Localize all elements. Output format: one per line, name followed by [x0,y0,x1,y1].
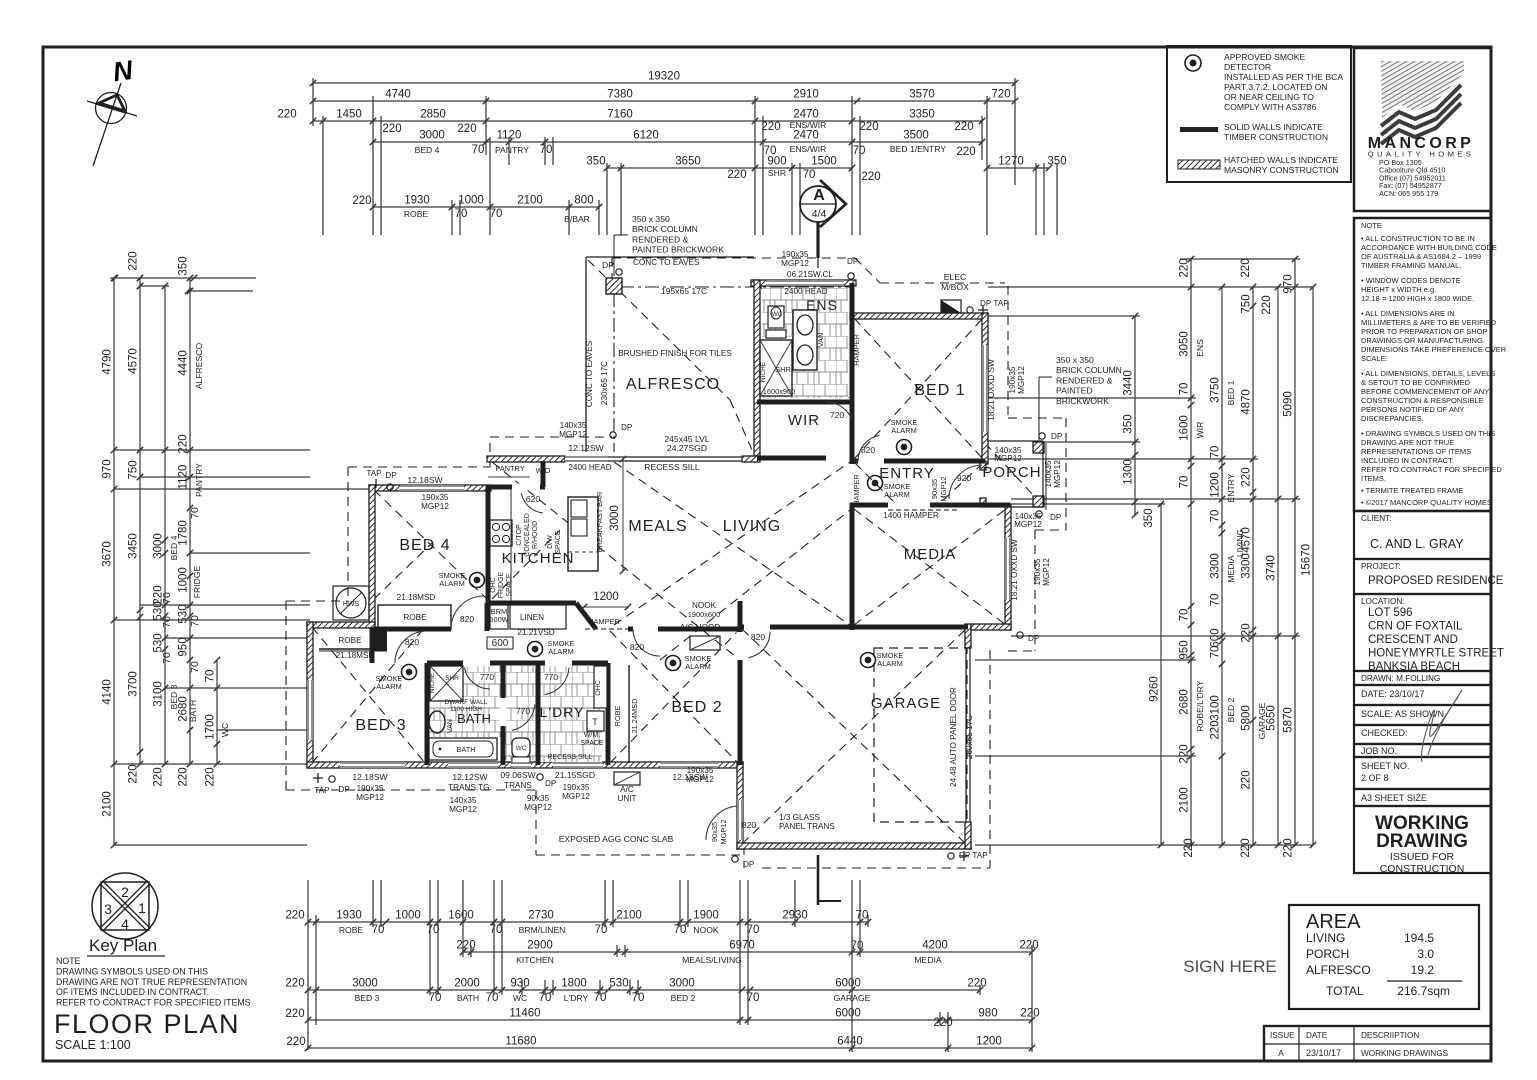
checked box [1354,725,1491,744]
svg-text:6970: 6970 [729,940,755,952]
svg-text:ISSUE: ISSUE [1270,1031,1295,1040]
svg-text:90x35: 90x35 [527,794,550,803]
svg-text:BED 1: BED 1 [914,382,965,399]
bed2 west wall [738,601,743,765]
left dim col 4570/750/3450/3700 [139,278,141,764]
svg-text:6000: 6000 [835,1008,861,1020]
right dim col 3440/350/1300 [1134,316,1136,515]
svg-text:L'DRY: L'DRY [564,993,589,1003]
svg-text:MGP12: MGP12 [524,803,552,812]
svg-text:70: 70 [540,144,553,156]
svg-text:1300: 1300 [1123,459,1135,485]
svg-text:530: 530 [153,633,165,652]
right dim col 970/5090/5870 [1294,259,1296,845]
svg-text:19.2: 19.2 [1411,963,1435,977]
svg-text:18.21 OXXD SW: 18.21 OXXD SW [987,359,996,421]
svg-text:220: 220 [1179,258,1191,277]
svg-text:2 OF 8: 2 OF 8 [1361,773,1389,783]
window 12.18SW bed2 [660,762,718,768]
svg-text:NOOK: NOOK [693,925,719,935]
key plan symbol [92,873,158,939]
svg-text:190x35: 190x35 [687,766,714,775]
svg-text:ALFRESCO: ALFRESCO [1306,963,1371,977]
svg-text:140x35: 140x35 [450,796,477,805]
eaves dashed outline [348,466,490,468]
bed3 north jog wall [307,622,375,628]
svg-text:ELEC: ELEC [944,272,966,282]
svg-text:MGP12: MGP12 [719,819,728,844]
svg-text:ENS/WIR: ENS/WIR [790,120,827,130]
bottom dim row kitchen/meals-living/media [463,951,1032,953]
svg-text:PORCH: PORCH [1306,947,1349,961]
svg-text:DP TAP: DP TAP [959,851,988,860]
svg-text:2470: 2470 [793,130,819,142]
svg-text:SHEET NO.: SHEET NO. [1361,761,1409,771]
svg-text:NICHE: NICHE [429,672,436,693]
svg-text:194.5: 194.5 [1404,931,1434,945]
svg-text:MILLIMETERS & ARE TO BE V: MILLIMETERS & ARE TO BE VERIFIED [1361,318,1497,327]
svg-text:900: 900 [767,156,786,168]
smoke alarm entry [868,476,883,491]
garage east open side [965,627,967,844]
window 12.12SW bath [448,762,498,768]
svg-text:1000: 1000 [458,195,484,207]
svg-text:PORCH: PORCH [982,464,1041,481]
svg-text:220: 220 [1240,258,1252,277]
svg-text:1270: 1270 [998,156,1024,168]
svg-text:ALFRESCO: ALFRESCO [626,376,720,393]
svg-text:MGP12: MGP12 [1014,520,1042,529]
svg-text:70: 70 [1179,476,1191,489]
svg-text:1600: 1600 [448,910,474,922]
svg-text:220: 220 [128,764,140,783]
svg-text:190x35: 190x35 [1033,558,1042,585]
svg-text:190x35: 190x35 [782,250,809,259]
svg-text:DRAWING: DRAWING [1376,831,1468,852]
dim 19320 overall width [313,82,1015,84]
svg-text:7160: 7160 [607,109,633,121]
bath fixtures [430,666,463,701]
window media east [1005,537,1011,600]
svg-text:KITCHEN: KITCHEN [516,955,554,965]
svg-text:11460: 11460 [509,1008,540,1020]
svg-text:ENTRY: ENTRY [879,465,935,482]
svg-text:350: 350 [586,156,605,168]
svg-text:A: A [813,187,825,204]
svg-text:3: 3 [104,901,112,917]
alfresco brick column [606,278,622,294]
svg-text:ALFRESCO: ALFRESCO [194,343,204,390]
svg-text:BED 4: BED 4 [415,145,440,155]
svg-text:TRANS: TRANS [504,781,532,790]
svg-text:PAINTED: PAINTED [1056,386,1093,396]
svg-text:11680: 11680 [505,1036,536,1048]
svg-text:5650: 5650 [1266,705,1278,731]
svg-text:DRAWINGS OR MANUFACTURING.: DRAWINGS OR MANUFACTURING. [1361,336,1485,345]
svg-text:220: 220 [285,1008,304,1020]
svg-text:DP: DP [1050,513,1062,522]
svg-text:HAMPER: HAMPER [588,617,620,626]
svg-text:5870: 5870 [1283,707,1295,733]
right dim col 15670 [1312,287,1314,845]
svg-text:MGP12: MGP12 [421,502,449,511]
svg-text:DRAWN: M.FOLLING: DRAWN: M.FOLLING [1361,674,1440,683]
svg-text:3500: 3500 [903,130,929,142]
svg-text:• TERMITE TREATED FRAME: • TERMITE TREATED FRAME [1361,486,1463,495]
svg-text:C/TOP: C/TOP [516,524,523,546]
svg-text:SHR: SHR [768,168,786,178]
svg-text:WC: WC [772,311,783,318]
svg-text:220: 220 [727,169,746,181]
wc fixture [512,738,530,757]
window 06.21SW.CL ens [766,280,844,286]
porch columns [1033,442,1044,453]
svg-text:A/C: A/C [620,785,634,794]
svg-text:CLIENT:: CLIENT: [1361,514,1391,523]
svg-text:WC: WC [513,993,527,1003]
svg-text:MGP12: MGP12 [939,476,948,501]
svg-text:BED 1: BED 1 [1226,380,1236,405]
svg-text:DATE: DATE [1306,1031,1328,1040]
svg-text:1780: 1780 [178,520,190,546]
svg-text:ENS: ENS [1195,339,1205,357]
svg-text:T: T [592,717,598,727]
svg-text:LOCATION:: LOCATION: [1361,597,1405,606]
svg-text:350: 350 [178,256,190,275]
svg-text:PAINTED BRICKWORK: PAINTED BRICKWORK [632,245,724,255]
svg-text:COMPLY WITH AS3786: COMPLY WITH AS3786 [1224,102,1317,112]
svg-text:220: 220 [128,251,140,270]
svg-text:BED 2: BED 2 [671,993,696,1003]
door arc garage glass [706,806,737,840]
svg-text:ROBE: ROBE [403,613,427,622]
svg-text:1600: 1600 [1179,415,1191,441]
door arc wir [826,402,852,420]
ens vanity [793,310,817,370]
svg-text:720: 720 [991,89,1010,101]
svg-text:DRAWING SYMBOLS USED ON TH: DRAWING SYMBOLS USED ON THIS [56,966,208,976]
svg-text:70: 70 [1210,446,1222,459]
svg-text:4790: 4790 [102,349,114,375]
svg-text:70: 70 [1179,609,1191,622]
svg-text:TOTAL: TOTAL [1326,984,1364,998]
svg-text:CONSTRUCTION & RESPONSIBLE: CONSTRUCTION & RESPONSIBLE [1361,396,1484,405]
wc/ldry wall [536,663,541,765]
right dim col 3750/1200/3300/3100 [1221,287,1223,845]
door arc hall/bed3 [395,631,425,663]
door arc bath [464,668,490,690]
hall south wall [427,661,608,666]
svg-text:220: 220 [178,767,190,786]
ens west wall [754,280,760,461]
svg-text:A: A [1278,1049,1284,1058]
svg-text:SHR: SHR [445,675,459,682]
svg-text:TIMBER FRAMING MANUAL.: TIMBER FRAMING MANUAL. [1361,261,1461,270]
svg-text:980: 980 [978,1008,997,1020]
svg-text:ROBE: ROBE [339,925,364,935]
svg-text:3100: 3100 [153,681,165,707]
dim row 4740/7380/2910/3570/720 [313,100,1015,102]
svg-text:NOOK: NOOK [692,601,717,610]
ens shower [760,340,792,396]
svg-text:ALARM: ALARM [548,647,573,656]
svg-text:B/BAR: B/BAR [564,214,590,224]
meals north wall [487,456,565,462]
media south wall [971,624,1011,630]
svg-text:770: 770 [480,672,495,682]
svg-text:350: 350 [1123,414,1135,433]
window 18.21 bed1 east [982,345,988,432]
svg-text:6000: 6000 [835,978,861,990]
svg-text:OF AUSTRALIA & AS1684.2 –: OF AUSTRALIA & AS1684.2 – 1999 [1361,252,1481,261]
hws unit [333,586,369,620]
svg-text:220: 220 [153,767,165,786]
svg-text:1700: 1700 [205,714,217,740]
left dim col 3000/3100 [164,286,166,764]
linen/brm cabinets [490,605,508,629]
entry south wall [850,503,1010,508]
svg-text:3100: 3100 [1210,695,1222,721]
door arc wc [512,705,535,731]
svg-text:UNIT: UNIT [617,794,636,803]
tap dp bottom left [313,777,323,779]
svg-text:DP: DP [621,423,633,432]
svg-text:5090: 5090 [1283,391,1295,417]
legend box: smoke detector / wall types [1167,46,1351,182]
svg-text:3450: 3450 [128,533,140,559]
window 21.15SGD ldry [553,762,603,768]
svg-text:1200: 1200 [1210,472,1222,498]
svg-text:HATCHED WALLS INDICATE: HATCHED WALLS INDICATE [1224,155,1338,165]
svg-text:190x35: 190x35 [357,784,384,793]
svg-text:EXPOSED AGG CONC SLAB: EXPOSED AGG CONC SLAB [559,834,674,844]
svg-text:220: 220 [967,978,986,990]
svg-text:HAMPER: HAMPER [852,474,861,506]
svg-text:3570: 3570 [909,89,935,101]
svg-text:18.21 OXXD SW: 18.21 OXXD SW [1010,539,1019,601]
svg-text:820: 820 [861,445,876,455]
svg-text:TAP: TAP [314,786,330,795]
svg-text:MEALS: MEALS [628,518,687,535]
svg-text:A/C HOOD: A/C HOOD [680,623,721,632]
svg-text:12.18SW: 12.18SW [352,772,388,782]
svg-text:PROJECT:: PROJECT: [1361,562,1401,571]
svg-text:PANTRY: PANTRY [495,145,529,155]
south wall bedrooms wing [307,762,743,768]
svg-text:DRAWING ARE NOT TRUE: DRAWING ARE NOT TRUE [1361,438,1454,447]
svg-text:DATE: 23/10/17: DATE: 23/10/17 [1361,689,1424,699]
ldry/robe wall [606,663,611,765]
svg-text:260x65 17C: 260x65 17C [965,715,974,759]
svg-text:12.12SW: 12.12SW [568,443,604,453]
svg-text:DETECTOR: DETECTOR [1224,62,1271,72]
svg-text:09.06SW: 09.06SW [500,770,536,780]
svg-text:DRAWING ARE NOT TRUE REPRE: DRAWING ARE NOT TRUE REPRESENTATION [56,977,247,987]
svg-text:3000: 3000 [419,130,445,142]
svg-text:DP: DP [338,785,350,794]
svg-text:MGP12: MGP12 [781,259,809,268]
svg-text:70: 70 [189,615,201,627]
svg-text:800: 800 [574,195,593,207]
svg-text:DP: DP [1028,634,1040,643]
svg-text:BEFORE COMMENCEMENT OF ANY: BEFORE COMMENCEMENT OF ANY [1361,387,1489,396]
svg-text:220: 220 [285,910,304,922]
svg-text:820: 820 [751,632,766,642]
svg-text:PANTRY: PANTRY [194,463,204,497]
svg-text:2100: 2100 [616,910,642,922]
svg-text:BRM/LINEN: BRM/LINEN [519,925,566,935]
svg-text:350 x 350: 350 x 350 [1056,355,1094,365]
svg-text:3740: 3740 [1266,555,1278,581]
dim row 1450/2850/7160/2470/3350 [313,120,982,122]
bed1 north wall [850,313,988,319]
bed4 north wall [369,485,491,491]
svg-text:BED 2: BED 2 [1226,697,1236,722]
svg-text:• DRAWING SYMBOLS USED ON: • DRAWING SYMBOLS USED ON THIS [1361,429,1495,438]
window 12.12SW kitchen [565,456,608,462]
svg-text:2730: 2730 [528,910,554,922]
ac unit [614,772,640,785]
svg-text:FRIDGE: FRIDGE [192,566,202,599]
svg-text:OHC: OHC [490,577,497,593]
svg-text:LOT 596: LOT 596 [1368,607,1413,619]
svg-text:C. AND L. GRAY: C. AND L. GRAY [1370,537,1464,551]
svg-text:SPACE: SPACE [506,573,513,597]
glass panel door garage [737,800,743,840]
svg-text:VAN: VAN [816,333,825,348]
svg-text:• ©2017 MANCORP QUALITY HO: • ©2017 MANCORP QUALITY HOMES [1361,498,1492,507]
svg-text:24.27SGD: 24.27SGD [667,443,707,453]
svg-text:70: 70 [205,670,217,683]
svg-text:2850: 2850 [420,109,446,121]
svg-text:1930: 1930 [336,910,362,922]
bottom dim row robe/brm/nook [308,921,868,923]
svg-text:1800: 1800 [561,978,587,990]
svg-text:2100: 2100 [1179,787,1191,813]
dim row 1270/350 [987,167,1049,169]
svg-text:HONEYMYRTLE STREET: HONEYMYRTLE STREET [1368,648,1504,660]
svg-text:• ALL CONSTRUCTION TO BE: • ALL CONSTRUCTION TO BE IN [1361,234,1475,243]
svg-text:220: 220 [861,171,880,183]
svg-text:1900: 1900 [693,910,719,922]
svg-text:BATH: BATH [457,711,491,726]
svg-text:220: 220 [285,978,304,990]
garage west wall [737,762,743,849]
door arc living/garage [749,632,771,658]
garage south wall [737,843,971,849]
pantry walls [488,485,545,490]
job no box [1354,744,1491,757]
svg-text:220: 220 [933,1017,952,1029]
svg-text:Key Plan: Key Plan [89,936,157,955]
svg-text:220: 220 [178,434,190,453]
left dim col 4440/1120/2680 [189,278,191,764]
svg-text:DESCRIIPTION: DESCRIIPTION [1361,1031,1419,1040]
svg-text:750: 750 [128,460,140,479]
svg-text:OHC: OHC [595,680,602,696]
svg-text:70: 70 [1210,646,1222,659]
svg-text:70: 70 [1179,383,1191,396]
drawn box [1354,671,1491,685]
window 12.18SW bed4 [400,485,464,491]
svg-text:820: 820 [405,637,420,647]
window bed3 west [307,680,313,740]
svg-text:ALARM: ALARM [884,490,909,499]
meals north wall east stub [742,456,760,462]
svg-text:ITEMS.: ITEMS. [1361,474,1386,483]
svg-text:70: 70 [1210,594,1222,607]
svg-text:MGP12: MGP12 [562,792,590,801]
svg-text:600: 600 [1210,628,1222,647]
svg-text:06.21SW.CL: 06.21SW.CL [787,270,833,279]
roof hip dashed diagonals [588,260,730,400]
svg-text:140x35: 140x35 [1044,460,1053,487]
svg-text:BED 3: BED 3 [355,993,380,1003]
svg-text:2400 HEAD: 2400 HEAD [784,287,827,296]
bottom dim row bed3/bath/wc/ldry/bed2/garage [308,989,980,991]
client box [1354,511,1491,559]
door arc entry front [949,465,982,499]
svg-text:BED 4: BED 4 [399,537,450,554]
svg-text:70: 70 [490,924,503,936]
svg-text:220: 220 [1261,295,1273,314]
svg-text:CRESCENT AND: CRESCENT AND [1368,634,1458,646]
svg-text:DP: DP [1051,432,1063,441]
svg-text:3000: 3000 [609,505,621,531]
svg-text:WORKING DRAWINGS: WORKING DRAWINGS [1361,1049,1449,1058]
svg-text:820: 820 [630,642,645,652]
svg-text:ROBE: ROBE [404,209,429,219]
svg-text:4/4: 4/4 [812,208,827,220]
svg-text:220: 220 [277,109,296,121]
svg-text:530: 530 [178,604,190,623]
svg-text:PART 3.7.2. LOCATED ON: PART 3.7.2. LOCATED ON [1224,82,1327,92]
solid wall legend symbol [1180,127,1218,132]
svg-text:AREA: AREA [1306,911,1361,933]
svg-text:1000: 1000 [395,910,421,922]
top dimension extension lines [312,78,314,126]
svg-text:• ALL DIMENSIONS ARE IN: • ALL DIMENSIONS ARE IN [1361,309,1455,318]
dim row 1930/1000/2100/800 [373,206,599,208]
svg-text:70: 70 [1210,510,1222,523]
date box [1354,685,1491,705]
svg-text:220: 220 [761,121,780,133]
svg-text:21.15SGD: 21.15SGD [555,770,595,780]
svg-text:4: 4 [121,916,129,932]
Mancorp logo [1381,61,1464,144]
svg-text:820: 820 [460,614,475,624]
smoke detector legend symbol [1185,55,1201,71]
svg-text:PANEL TRANS: PANEL TRANS [779,822,835,831]
svg-text:HAMPER: HAMPER [852,334,861,366]
svg-text:820: 820 [742,820,757,830]
svg-text:1450: 1450 [336,109,362,121]
svg-text:WIR: WIR [788,412,820,429]
svg-text:2000: 2000 [454,978,480,990]
svg-text:ALARM: ALARM [685,662,710,671]
svg-text:19320: 19320 [648,71,680,83]
svg-text:190x35: 190x35 [563,783,590,792]
svg-text:BRICK COLUMN: BRICK COLUMN [1056,365,1122,375]
media west wall [850,503,855,630]
svg-text:950: 950 [1179,640,1191,659]
bed3 robe walls [370,628,375,663]
svg-text:ALARM: ALARM [439,579,464,588]
svg-text:220: 220 [382,123,401,135]
svg-text:600W: 600W [489,615,508,624]
smoke alarm hall [528,642,543,657]
svg-text:2680: 2680 [1179,689,1191,715]
